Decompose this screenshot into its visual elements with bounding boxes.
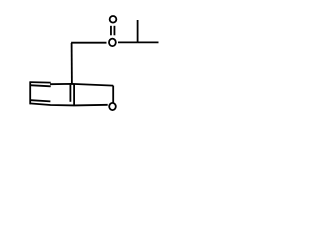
node O ester oxygen xyxy=(109,39,116,47)
node O carbonyl oxygen xyxy=(110,16,117,23)
wire left ring left edge xyxy=(29,82,31,105)
wire bond ester O to isopropyl CH xyxy=(118,41,138,43)
wire CH2 bond from ring junction up xyxy=(71,43,73,84)
wire C=O double bond left line xyxy=(110,26,112,36)
wire top edge to ring junction and right ring top edge xyxy=(50,84,113,86)
wire ring fusion bond xyxy=(73,84,75,105)
wire isopropyl methyl right bond xyxy=(138,41,159,43)
node O oxetane ring oxygen xyxy=(109,103,116,110)
wire C=O double bond right line xyxy=(113,26,115,36)
wire left ring top double bond lower line xyxy=(30,85,51,86)
wire right ring right edge xyxy=(112,86,114,103)
wire isopropyl methyl up bond xyxy=(137,20,139,43)
wire ring fusion double bond inner line xyxy=(69,85,71,102)
wire bottom edge across both rings xyxy=(30,103,108,105)
wire bond CH2 to ester O xyxy=(71,42,106,44)
wire left ring bottom double bond inner line xyxy=(31,100,51,101)
wire left ring top double bond upper line xyxy=(30,81,51,84)
